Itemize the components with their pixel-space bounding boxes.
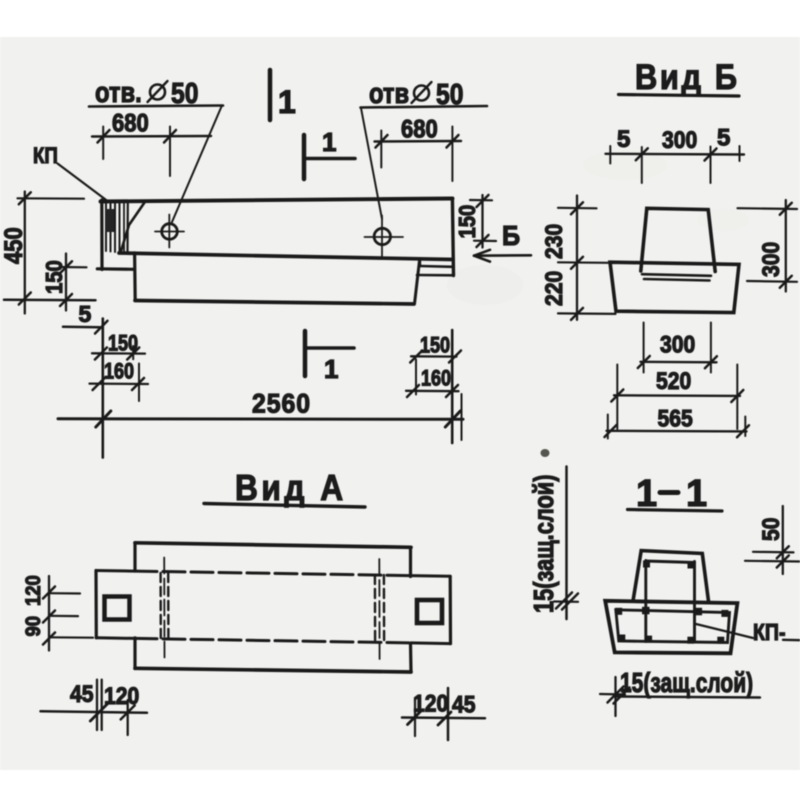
right tab square hole xyxy=(417,600,442,623)
dim 150 right end ext top xyxy=(470,199,492,202)
dim top tick 2 xyxy=(705,149,717,161)
dim 450 tick bottom xyxy=(19,293,31,305)
svg-text:150: 150 xyxy=(41,260,68,294)
stirrup stem left vertical xyxy=(644,561,647,642)
dim 300 right ext top xyxy=(738,207,798,210)
beam bottom edge of upper part xyxy=(119,253,453,260)
dim bottom-left ext 3 xyxy=(127,700,129,735)
label otv d50 left diameter symbol xyxy=(150,85,165,100)
protective layer label left vertical text xyxy=(528,475,559,613)
protective layer left tick 2 xyxy=(562,594,578,610)
protective layer bottom stub xyxy=(600,693,625,696)
svg-text:680: 680 xyxy=(401,115,438,143)
KP leader diagonal xyxy=(696,624,753,638)
dim 230-220 tick 2 xyxy=(571,257,583,269)
dim 160 box right tick 2 xyxy=(446,385,458,397)
dim 520 text xyxy=(656,368,691,395)
long ext vertical right B xyxy=(461,394,463,440)
svg-text:1: 1 xyxy=(324,354,338,384)
label otv d50 right text xyxy=(369,77,463,111)
right hole crosshair vertical xyxy=(381,216,383,258)
svg-text:45: 45 xyxy=(70,681,93,708)
left cap left edge xyxy=(100,200,103,270)
dim left line xyxy=(48,576,50,651)
rebar dot 10 xyxy=(687,637,694,644)
dim 680 right line xyxy=(375,140,462,143)
faint scan smudge 4 xyxy=(541,449,550,457)
left tab left edge xyxy=(94,571,98,638)
left tab square hole xyxy=(105,597,130,620)
view A title xyxy=(235,468,347,508)
dim 300 right tick bottom xyxy=(780,276,792,288)
long ext vertical left of box dims xyxy=(102,319,105,458)
slab bottom edge xyxy=(135,668,411,672)
dim top ext 1 xyxy=(609,146,611,164)
left cap hatch line 5 xyxy=(123,204,125,253)
view A title underline xyxy=(204,504,365,508)
dim bottom-right ext 1 xyxy=(414,700,416,736)
right hole hidden edge 2 xyxy=(383,575,386,643)
left cap hatch line 3 xyxy=(114,204,116,253)
svg-text:КП-: КП- xyxy=(753,620,785,646)
dim 150 box left line xyxy=(92,352,145,355)
label otv d50 left diameter slash xyxy=(148,81,168,102)
dim 520 ext 2 xyxy=(736,365,738,430)
dim 230-220 ext 2 xyxy=(558,261,609,264)
dim 120 left text xyxy=(22,575,45,606)
dim 150 box left tick 1 xyxy=(95,348,107,360)
dim bottom-left tick 2 xyxy=(121,705,135,719)
svg-text:520: 520 xyxy=(656,368,691,395)
view B stem bottom line 2 xyxy=(644,279,710,281)
dim top ext 4 xyxy=(739,146,741,161)
dim 150 right end text xyxy=(454,205,481,239)
dim 300 right tick top xyxy=(780,203,792,215)
dim 150 right end ext bottom xyxy=(474,240,496,243)
leader from KP xyxy=(58,164,108,202)
bottom shared ext line xyxy=(4,299,96,302)
protective layer bottom tick 1 xyxy=(608,687,624,703)
dim 50 line xyxy=(782,506,784,574)
svg-text:300: 300 xyxy=(660,331,695,358)
rebar dot 1 xyxy=(643,561,650,568)
svg-text:50: 50 xyxy=(758,518,785,541)
svg-text:Вид Б: Вид Б xyxy=(635,57,740,96)
dim 680 right tick 1 xyxy=(376,135,388,148)
dim 680 left ext line 1 xyxy=(102,127,104,160)
dim 2560 line xyxy=(58,417,463,421)
dim 150 left tick bottom xyxy=(60,294,72,306)
svg-text:90: 90 xyxy=(22,616,45,637)
label otv d50 left text xyxy=(95,76,198,110)
dim left ext 3 xyxy=(49,636,93,639)
dim 565 tick 1 xyxy=(605,425,617,437)
svg-text:160: 160 xyxy=(421,367,451,391)
left cap hatch line 6 xyxy=(126,204,129,253)
dim 680 left ext line 2 xyxy=(169,127,171,177)
KP label text xyxy=(753,620,785,646)
dim 5 text xyxy=(79,301,92,327)
svg-text:КП: КП xyxy=(33,145,58,169)
dim 150 box right tick 2 xyxy=(449,351,461,363)
left hole crosshair horizontal xyxy=(155,231,184,233)
protective layer label bottom text xyxy=(620,668,753,699)
dim bottom-right line xyxy=(402,716,485,719)
section title underline xyxy=(628,510,723,512)
dim 150 box right text xyxy=(420,334,450,358)
left hole circle xyxy=(162,224,178,240)
svg-text:1: 1 xyxy=(278,84,296,120)
dim 230 text xyxy=(541,224,568,259)
dim 45 bottom-right text xyxy=(452,691,475,718)
section cut mark upper-mid label 1 xyxy=(322,127,336,157)
svg-text:отв.: отв. xyxy=(95,76,142,109)
dim 680 left line xyxy=(92,135,211,138)
svg-text:150: 150 xyxy=(420,334,450,358)
slab right edge xyxy=(415,261,420,304)
dim 160 box right text xyxy=(421,367,451,391)
dim 450 tick top xyxy=(19,192,31,204)
svg-text:160: 160 xyxy=(104,360,134,384)
protective layer left stub xyxy=(554,600,578,602)
section cut mark lower horizontal xyxy=(306,346,354,350)
dim 5 tick xyxy=(95,321,108,334)
rebar dot 7 xyxy=(618,635,625,642)
label KP text xyxy=(33,145,58,169)
dim 150 box right tick 1 xyxy=(410,351,422,363)
dim 150 right end tick top xyxy=(477,195,489,207)
dim 50 ext 1 xyxy=(753,551,794,554)
dim 300 bottom tick 2 xyxy=(705,356,717,368)
dim 680 left tick 2 xyxy=(164,130,176,143)
slab left edge lower xyxy=(133,638,136,669)
slab left edge upper xyxy=(133,543,136,571)
band top solid left xyxy=(96,569,135,573)
left cap anchor blob xyxy=(106,209,115,232)
rebar dot 3 xyxy=(615,608,622,615)
right hole circle xyxy=(374,228,390,244)
svg-text:15(защ.слой): 15(защ.слой) xyxy=(620,668,753,699)
dim 680 right ext line 1 xyxy=(380,131,382,168)
dim 520 line xyxy=(614,394,740,397)
beam top edge xyxy=(101,199,453,202)
dim 300 bottom ext 2 xyxy=(710,323,712,373)
dim 300 bottom ext 1 xyxy=(643,323,645,373)
dim 120 bottom-right text xyxy=(413,690,448,717)
slab right edge lower xyxy=(409,644,413,672)
slab bottom edge xyxy=(135,301,414,305)
dim 150 box left ext xyxy=(132,346,134,359)
dim 230-220 line xyxy=(576,196,578,320)
faint scan smudge 2 xyxy=(697,209,749,231)
right end notch bottom line xyxy=(417,274,453,277)
right hole axis line xyxy=(378,559,380,661)
dim 50 tick 2 xyxy=(777,556,789,568)
dim 120 bottom-left text xyxy=(104,683,139,710)
section stem outline xyxy=(633,551,709,602)
dim bottom-left ext pair 1 xyxy=(96,680,98,730)
dim 450 top ext line xyxy=(18,197,85,200)
section cut mark lower vertical xyxy=(303,331,308,376)
dim 565 text xyxy=(658,405,693,432)
dim 2560 text xyxy=(252,390,311,419)
dim 150 left text xyxy=(41,260,68,294)
dim 450 line xyxy=(24,192,26,314)
dim 90 left text xyxy=(22,616,45,637)
faint scan smudge 1 xyxy=(583,150,667,180)
dim 300 right line xyxy=(785,200,787,292)
protective layer label bottom underline xyxy=(617,697,760,698)
svg-text:45: 45 xyxy=(452,691,475,718)
slab left edge xyxy=(133,253,137,301)
dim 565 end stub right xyxy=(744,417,746,437)
dim 50 text xyxy=(758,518,785,541)
left hole hidden edge 1 xyxy=(159,573,162,641)
right tab right edge xyxy=(449,576,452,643)
dim 150 box left tick 2 xyxy=(127,348,139,360)
dim 565 line xyxy=(607,430,747,433)
svg-text:5: 5 xyxy=(717,125,730,152)
stirrup stem right vertical xyxy=(693,562,696,642)
dim 160 box left line xyxy=(90,382,149,385)
dim top tick 1 xyxy=(636,148,648,160)
dim 160 box left ext xyxy=(138,364,140,402)
band bottom dashed middle xyxy=(135,638,411,643)
dim 300 bottom tick 1 xyxy=(638,356,650,368)
label otv d50 right diameter slash xyxy=(412,82,432,103)
dim 230-220 ext 1 xyxy=(558,207,597,210)
label otv d50 left underline xyxy=(89,106,223,107)
dim 150 right end line xyxy=(481,195,483,248)
svg-text:220: 220 xyxy=(541,271,568,306)
dim 150 box right line xyxy=(411,355,457,358)
dim 300 right text xyxy=(758,242,785,277)
dim 160 box right line xyxy=(406,390,459,393)
rebar dot 5 xyxy=(642,607,650,615)
svg-text:2560: 2560 xyxy=(252,390,311,419)
dim 565 tick 2 xyxy=(737,425,749,437)
dim 150 right end tick bottom xyxy=(477,235,489,247)
view B title xyxy=(635,57,740,96)
dim 520 ext 1 xyxy=(616,365,618,430)
slab top edge xyxy=(135,543,411,548)
stirrup stem top line xyxy=(646,561,695,563)
dim 230-220 tick 3 xyxy=(571,308,583,320)
section title 1-1 xyxy=(636,473,707,515)
svg-text:450: 450 xyxy=(0,227,27,264)
leader to right hole xyxy=(361,108,382,219)
view B block outline xyxy=(610,262,739,312)
right hole crosshair horizontal xyxy=(365,236,404,238)
band bottom solid right xyxy=(411,641,451,645)
dim 160 box left tick 2 xyxy=(132,378,144,390)
dim bottom-left ext pair 2 xyxy=(101,680,103,730)
view B stem outline xyxy=(641,208,715,271)
svg-text:15(защ.слой): 15(защ.слой) xyxy=(528,475,559,613)
dim 150 left top ext xyxy=(60,266,87,268)
view B stem bottom line 1 xyxy=(642,274,711,276)
KP label tail line xyxy=(783,639,800,642)
dim 50 ext 2 xyxy=(745,560,800,563)
dim 220 text xyxy=(541,271,568,306)
svg-text:565: 565 xyxy=(658,405,693,432)
svg-text:120: 120 xyxy=(22,575,45,606)
dim top ext 3 xyxy=(710,147,712,184)
section cut mark upper-mid vertical xyxy=(302,135,307,179)
left cap bottom edge xyxy=(97,267,134,271)
band bottom solid left xyxy=(96,636,135,640)
dim 300 bottom line xyxy=(641,361,717,364)
rebar dot 8 xyxy=(717,637,724,644)
protective layer label left underline xyxy=(565,467,568,620)
svg-text:680: 680 xyxy=(112,109,149,137)
dim 680 right ext line 2 xyxy=(451,127,453,182)
dim 2560 tick left xyxy=(96,411,111,427)
dim 230-220 ext 3 xyxy=(558,312,616,315)
band top dashed middle xyxy=(135,571,411,576)
dim 450 text xyxy=(0,227,27,264)
left cap hatch line 1 xyxy=(105,204,107,252)
dim 565 end stub left xyxy=(607,415,609,439)
view B marker arrowhead xyxy=(474,250,490,262)
dim 5 line xyxy=(63,326,100,329)
svg-text:отв: отв xyxy=(369,77,409,110)
dim 230-220 tick 1 xyxy=(571,202,583,214)
rebar dot 6 xyxy=(695,608,703,616)
beam right end edge xyxy=(452,199,453,276)
view B marker arrow line xyxy=(474,254,531,257)
dim 300 right ext bottom xyxy=(747,280,797,283)
protective layer bottom vertical xyxy=(614,677,616,716)
stirrup block rect xyxy=(616,610,730,643)
rebar dot 2 xyxy=(688,562,695,569)
svg-text:300: 300 xyxy=(758,242,785,277)
dim top line xyxy=(606,153,745,156)
svg-text:5: 5 xyxy=(79,301,92,327)
svg-text:1: 1 xyxy=(322,127,336,157)
dim left tick 2 xyxy=(43,611,55,623)
dim 520 tick 1 xyxy=(611,390,623,402)
protective layer left tick 1 xyxy=(556,593,572,609)
dim 160 box left text xyxy=(104,360,134,384)
section block outline xyxy=(605,601,737,654)
dim left ext 2 xyxy=(49,615,78,617)
section cut mark lower label 1 xyxy=(324,354,338,384)
left cap wedge diagonal xyxy=(121,203,145,252)
right hole hidden edge 1 xyxy=(374,575,377,643)
section cut mark upper-mid horizontal xyxy=(305,157,355,161)
left cap hatch line 2 xyxy=(110,204,112,252)
svg-text:5: 5 xyxy=(617,126,630,153)
dim left tick 3 xyxy=(43,633,55,645)
dim 680 left text xyxy=(112,109,149,137)
svg-text:300: 300 xyxy=(662,127,697,154)
dim 150 box right ext xyxy=(415,360,417,395)
dim 5 left text xyxy=(617,126,630,153)
dim 150 left tick top xyxy=(60,261,72,273)
svg-text:1: 1 xyxy=(686,473,707,515)
section cut mark top label 1 xyxy=(278,84,296,120)
dim 300 top text xyxy=(662,127,697,154)
dim left tick 1 xyxy=(43,587,55,599)
dim bottom-left tick 1 xyxy=(90,703,108,721)
dim 680 right tick 2 xyxy=(447,135,459,148)
label otv d50 right underline xyxy=(361,106,488,108)
dim 160 box left tick 1 xyxy=(93,378,105,390)
right end notch left edge xyxy=(419,260,421,266)
dim left ext 1 xyxy=(49,592,80,594)
dim 520 tick 2 xyxy=(731,390,743,402)
leader to left hole xyxy=(172,107,222,223)
svg-text:Вид А: Вид А xyxy=(235,468,347,508)
protective layer bottom tick 2 xyxy=(614,688,630,704)
svg-text:Б: Б xyxy=(502,220,520,252)
band top solid right xyxy=(411,574,450,578)
dim bottom-right tick 2 xyxy=(438,712,451,725)
dim 5 right text xyxy=(717,125,730,152)
view B title underline xyxy=(619,95,740,97)
dim top ext 2 xyxy=(641,147,643,183)
svg-text:230: 230 xyxy=(541,224,568,259)
left hole hidden edge 2 xyxy=(167,573,170,641)
long ext vertical right A xyxy=(451,330,454,443)
left cap hatch line 4 xyxy=(119,204,121,253)
dim 680 right text xyxy=(401,115,438,143)
view B marker letter xyxy=(502,220,520,252)
section cut mark top line xyxy=(268,70,273,120)
dim 2560 tick right xyxy=(445,411,460,427)
dim 150 left line xyxy=(65,254,67,311)
faint scan smudge 3 xyxy=(447,265,523,305)
left hole axis line xyxy=(163,558,165,659)
dim bottom-right tick 1 xyxy=(408,712,421,725)
left hole crosshair vertical xyxy=(168,215,170,248)
dim 150 box left text xyxy=(108,332,138,356)
svg-text:150: 150 xyxy=(454,205,481,239)
right end notch top line xyxy=(420,265,453,268)
dim 160 box right tick 1 xyxy=(407,385,419,397)
dim 50 tick 1 xyxy=(777,546,789,558)
dim 45 bottom-left text xyxy=(70,681,93,708)
section title dash xyxy=(660,490,678,495)
dim 300 bottom text xyxy=(660,331,695,358)
slab right edge upper xyxy=(409,547,412,576)
label otv d50 right diameter symbol xyxy=(414,86,429,101)
dim 680 left tick 1 xyxy=(98,130,110,143)
rebar dot 4 xyxy=(721,610,728,617)
dim bottom-left line xyxy=(41,711,148,713)
dim bottom-right mid vertical xyxy=(447,688,450,740)
rebar dot 9 xyxy=(645,636,652,643)
